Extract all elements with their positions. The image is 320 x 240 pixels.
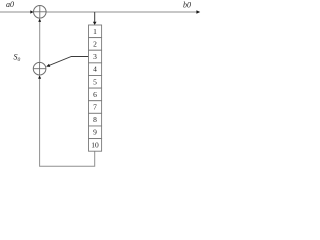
svg-text:6: 6 <box>93 90 97 99</box>
svg-text:a0: a0 <box>6 0 14 9</box>
svg-text:4: 4 <box>93 65 97 74</box>
svg-text:2: 2 <box>93 40 97 49</box>
svg-text:b0: b0 <box>183 1 191 10</box>
svg-text:1: 1 <box>93 27 97 36</box>
svg-text:9: 9 <box>93 128 97 137</box>
svg-text:3: 3 <box>93 52 97 61</box>
svg-text:10: 10 <box>91 140 99 149</box>
svg-text:8: 8 <box>93 115 97 124</box>
svg-text:7: 7 <box>93 103 97 112</box>
svg-text:5: 5 <box>93 77 97 86</box>
